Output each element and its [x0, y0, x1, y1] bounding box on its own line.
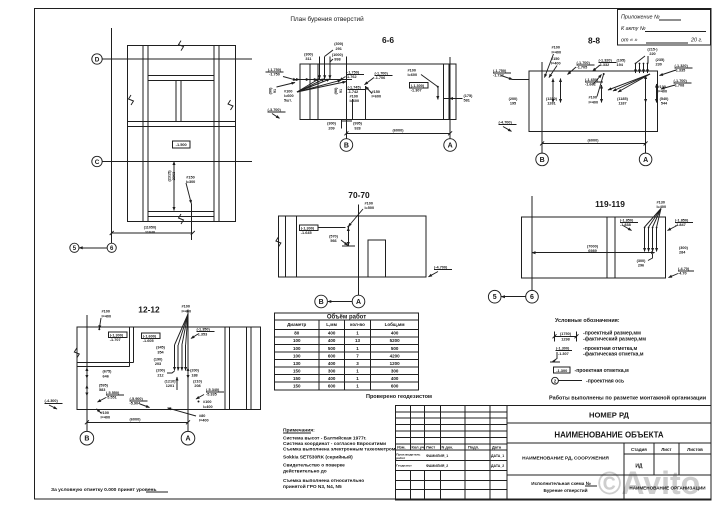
svg-text:#100: #100 [182, 305, 190, 309]
svg-text:Lобщ,мм: Lобщ,мм [385, 321, 406, 327]
8-8 left arrow [501, 76, 513, 80]
8-8 label (-1.700)/-1.708 right [674, 79, 692, 88]
svg-text:#100: #100 [552, 46, 560, 50]
svg-text:-проектная ось: -проектная ось [586, 378, 624, 384]
svg-text:(675): (675) [103, 370, 113, 374]
legend title [555, 317, 620, 324]
8-8 -4700 arrow [503, 127, 512, 132]
119-119 arrow -1847 [668, 226, 678, 231]
grid line 6 vertical [111, 28, 113, 243]
svg-text:(-1.600): (-1.600) [143, 334, 157, 338]
svg-text:#150: #150 [186, 176, 194, 180]
8-8 arrow right -1335 [660, 70, 677, 76]
6-6 left leader arrow [283, 77, 297, 81]
svg-text:400: 400 [328, 361, 336, 366]
svg-text:Проверено геодезистом: Проверено геодезистом [366, 394, 432, 400]
6-6 label #100 l=600 mid [350, 94, 360, 103]
70-70 inner vline a [284, 216, 286, 277]
svg-text:#130: #130 [657, 200, 665, 204]
svg-text:(7000): (7000) [587, 244, 599, 248]
12-12 label (345)/354 [156, 346, 166, 355]
revision header texts [397, 445, 502, 450]
svg-text:2363: 2363 [172, 172, 176, 180]
svg-text:(300): (300) [327, 122, 337, 126]
svg-text:-1.335: -1.335 [675, 69, 686, 73]
svg-text:(-1.350): (-1.350) [197, 328, 211, 332]
svg-text:(-1.700): (-1.700) [674, 79, 688, 83]
6-6 leader vline arrow 2 [324, 72, 326, 79]
section 119-119 body rect [522, 217, 666, 278]
cell NAIMENOVANIE OBJEKTA [507, 430, 711, 443]
70-70 -4700 arrow [429, 272, 439, 277]
8-8 leader2 [549, 66, 557, 78]
119-119 label (-4.70) right [678, 267, 694, 276]
svg-text:A: A [643, 157, 648, 164]
8-8 circle A [639, 153, 652, 166]
svg-text:(11050): (11050) [144, 226, 157, 230]
12-12 up arrow 1201 [176, 377, 178, 390]
6-6 inner vline right a [442, 64, 444, 120]
12-12 arrow -5551 [98, 398, 107, 403]
svg-text:Подп.: Подп. [468, 445, 479, 450]
svg-text:-1.645: -1.645 [301, 231, 312, 235]
8-8 arrow -1662 [593, 75, 602, 85]
12-12 box -1.300 [109, 332, 127, 337]
6-6 label #100 l=600 right [408, 69, 418, 78]
section 12-12 title [138, 305, 160, 315]
svg-text:291: 291 [336, 47, 342, 51]
svg-text:(-1.850): (-1.850) [620, 219, 634, 223]
svg-text:(1750): (1750) [560, 332, 572, 336]
svg-text:11040: 11040 [145, 230, 155, 234]
svg-text:НАИМЕНОВАНИЕ РД, СООРУЖЕНИЯ: НАИМЕНОВАНИЕ РД, СООРУЖЕНИЯ [522, 456, 609, 462]
6-6 inner vline a [309, 64, 311, 120]
section 119-119 title [595, 199, 625, 209]
plan wall mid band b [128, 126, 236, 128]
119-119 arrow -1838 [623, 226, 632, 231]
12-12 -4300 arrow [49, 405, 57, 409]
12-12 dim text (6000) [130, 417, 142, 421]
svg-text:(540): (540) [660, 97, 670, 101]
svg-text:-5.335: -5.335 [206, 393, 217, 397]
8-8 vdim 645 [645, 76, 647, 103]
svg-text:566: 566 [330, 239, 336, 243]
119-119 fan to label [645, 209, 661, 228]
svg-text:1187: 1187 [618, 102, 626, 106]
section 8-8 body rect [529, 71, 658, 132]
svg-text:Дата: Дата [492, 445, 502, 450]
8-8 label (1250)/1261 [546, 97, 558, 106]
svg-text:(-4.70): (-4.70) [678, 267, 690, 271]
6-6 label998 leader [330, 59, 333, 62]
svg-text:#150: #150 [372, 90, 380, 94]
svg-text:A: A [356, 299, 361, 306]
svg-text:230: 230 [656, 63, 662, 67]
8-8 label #150 l=400 [551, 57, 561, 66]
svg-text:646: 646 [103, 374, 109, 378]
svg-text:(200): (200) [509, 97, 519, 101]
svg-text:6: 6 [530, 294, 534, 301]
svg-text:300: 300 [391, 369, 399, 374]
svg-text:Лист: Лист [426, 445, 435, 450]
6-6 leader vline arrow 1 [319, 72, 321, 79]
svg-text:-1.750: -1.750 [269, 73, 280, 77]
svg-text:#100: #100 [408, 69, 416, 73]
section 70-70 title [348, 190, 370, 200]
plan bottom dim (11050)/11040 [144, 226, 157, 235]
svg-text:Работы выполнены по разметке м: Работы выполнены по разметке монтажной о… [549, 395, 706, 402]
svg-text:Диаметр: Диаметр [287, 322, 306, 327]
note about datum [51, 487, 168, 493]
plan wall bottom band b [148, 216, 214, 218]
svg-text:400: 400 [328, 376, 336, 381]
12-12 label (-1.350)/-1.353 [197, 328, 215, 337]
119-119 circle 5 [488, 290, 501, 303]
12-12 wall varrows 2 [86, 385, 88, 396]
svg-text:119-119: 119-119 [595, 199, 625, 209]
svg-text:B: B [540, 157, 545, 164]
12-12 label #100 l=400 bottom [101, 411, 111, 420]
8-8 arrow -1705 [568, 67, 577, 75]
8-8 label (-1.700)/-1.705 [577, 61, 595, 70]
stamp text K aktu [621, 26, 706, 32]
svg-text:212: 212 [157, 373, 163, 377]
6-6 inner vline b [317, 64, 319, 120]
svg-text:150: 150 [293, 384, 301, 389]
plan wall mid stub b [180, 80, 182, 121]
6-6 right leader slant [421, 75, 438, 87]
svg-text:(1000): (1000) [332, 53, 344, 57]
6-6 below line x341 [340, 120, 342, 129]
plan break top [179, 41, 184, 51]
svg-text:5шт.: 5шт. [284, 99, 292, 103]
6-6 label #150 l=600 [372, 90, 382, 99]
svg-text:ДАТА_2: ДАТА_2 [491, 464, 504, 468]
12-12 label #100 l=400 top A [182, 305, 192, 314]
70-70 label (-1.300)/-1.645 [301, 226, 315, 235]
70-70 label (-4.700) right [434, 265, 452, 269]
svg-text:l=400: l=400 [199, 419, 209, 423]
8-8 label (-1.650)/-1.662 [585, 78, 603, 87]
svg-text:-фактический размер,мм: -фактический размер,мм [583, 335, 646, 342]
svg-text:(-4.700): (-4.700) [434, 265, 448, 269]
svg-text:(300): (300) [334, 42, 344, 46]
plan dim tick R [191, 231, 195, 235]
plan wall right pair a [213, 46, 215, 222]
70-70 vdim tick [342, 245, 355, 247]
section 12-12 body rect [77, 327, 260, 410]
6-6 leader 150 600 [366, 87, 373, 94]
12-12 label (210)/208 [193, 379, 203, 388]
plan wall top crossbar a [148, 74, 214, 76]
8-8 label (-4.700) [499, 121, 517, 125]
8-8 dim tick B [540, 141, 544, 145]
12-12 corner wall h a [77, 362, 134, 364]
svg-text:80: 80 [294, 331, 300, 336]
svg-text:(1250): (1250) [546, 97, 558, 101]
svg-text:l=600: l=600 [372, 95, 382, 99]
svg-text:l=400: l=400 [552, 50, 562, 54]
6-6 label #100 l=600 5sht [284, 89, 294, 102]
12-12 wall varrows 1 [86, 368, 88, 379]
svg-text:500: 500 [391, 346, 399, 351]
title block revision grid [396, 405, 508, 500]
cell naimenovanie organizacii [629, 486, 705, 491]
plan wall mid band a [128, 120, 236, 122]
svg-text:6989: 6989 [588, 249, 596, 253]
6-6 label (-3.700) [268, 108, 286, 112]
8-8 grid A vertical [645, 96, 647, 153]
legend item boxed elevation [554, 367, 629, 374]
works table columns [319, 320, 371, 390]
plan leader #150 [186, 183, 191, 204]
119-119 label (-1.850)/-1.838 [620, 219, 638, 228]
8-8 label #100 l=400 right [658, 85, 668, 94]
svg-text:кол-во: кол-во [350, 322, 365, 327]
8-8 dim line 6000 [542, 142, 646, 144]
12-12 arrow -5335 [196, 395, 204, 400]
8-8 mid leader dot [603, 73, 605, 75]
svg-text:(90): (90) [334, 87, 338, 94]
svg-text:#100: #100 [203, 400, 211, 404]
12-12 right vpair2 b [250, 327, 252, 410]
svg-text:#100: #100 [365, 201, 373, 205]
svg-text:(-1.700): (-1.700) [577, 61, 591, 65]
svg-text:-1.762: -1.762 [346, 75, 357, 79]
svg-text:l=400: l=400 [203, 405, 213, 409]
svg-text:(-1.750): (-1.750) [268, 68, 282, 72]
svg-text:(-1.750): (-1.750) [493, 69, 507, 73]
6-6 mid vleader [352, 99, 354, 120]
12-12 arrow -5904 [140, 404, 150, 408]
svg-text:(1185): (1185) [617, 97, 629, 101]
70-70 grid A vertical [358, 205, 360, 296]
svg-text:Условные обозначения:: Условные обозначения: [555, 317, 620, 324]
svg-text:Исполнительная схема №: Исполнительная схема № [531, 481, 590, 486]
svg-text:Кол.уч: Кол.уч [412, 445, 425, 450]
svg-text:-4.70: -4.70 [678, 272, 687, 276]
svg-text:-5.904: -5.904 [130, 402, 142, 406]
svg-text:400: 400 [391, 376, 399, 381]
svg-text:(-1.850): (-1.850) [675, 219, 689, 223]
svg-text:l=600: l=600 [408, 73, 418, 77]
12-12 label (200)/188 [190, 369, 200, 378]
70-70 label hline [318, 227, 346, 229]
12-12 dim line 6000 [87, 421, 188, 423]
6-6 leader vline 1 [319, 56, 321, 78]
6-6 grid B vertical [345, 57, 347, 139]
6-6 leader vline 3 [329, 56, 331, 78]
12-12 circle A [181, 431, 195, 445]
svg-text:К акту №: К акту № [621, 26, 646, 32]
plan dim tick L [110, 231, 114, 235]
svg-text:A: A [185, 436, 190, 443]
12-12 corner wall v b [133, 327, 135, 363]
8-8 label (1185)/1187 [617, 97, 629, 106]
plan wall right pair b [218, 46, 220, 222]
svg-text:принятой ГРО N3, N4, N5: принятой ГРО N3, N4, N5 [283, 483, 342, 490]
svg-text:-проектная отметка,м: -проектная отметка,м [575, 368, 629, 374]
svg-text:l=400: l=400 [182, 309, 192, 313]
119-119 grid 6 vertical [531, 196, 533, 291]
70-70 circle A [352, 295, 365, 308]
svg-text:-1.300: -1.300 [556, 368, 567, 373]
6-6 chain arrow at 317.8 [312, 79, 318, 81]
12-12 label (-1.600)/-1.605 [143, 334, 157, 343]
8-8 inner vdim2 [560, 79, 562, 103]
12-12 label (190)/203 [154, 357, 164, 366]
stamp text Prilozhenie [621, 15, 681, 21]
svg-text:A: A [448, 143, 453, 150]
119-119 dim 7000 [532, 252, 655, 254]
svg-text:#100: #100 [284, 89, 292, 93]
119-119 label (300)/296 [637, 259, 647, 268]
svg-text:-1.706: -1.706 [375, 76, 386, 80]
12-12 212 leader [167, 371, 175, 373]
svg-text:2: 2 [554, 378, 557, 383]
svg-text:(-1.300): (-1.300) [411, 84, 425, 88]
6-6 label (-1.745)/-1.742 [348, 85, 366, 94]
6-6 label (300)/311 [304, 53, 314, 62]
svg-text:296: 296 [638, 264, 644, 268]
svg-text:Листов: Листов [687, 447, 703, 452]
70-70 break left [276, 237, 281, 247]
70-70 vdim [347, 228, 349, 246]
svg-text:208: 208 [194, 384, 200, 388]
svg-text:195: 195 [510, 102, 516, 106]
svg-text:работ: работ [396, 456, 405, 460]
svg-text:(-4.300): (-4.300) [45, 399, 59, 403]
8-8 leader1 [545, 54, 554, 78]
6-6 chain hline [294, 79, 353, 81]
cell naimenovanie rd sooruzheniya [522, 443, 624, 500]
12-12 label (1210)/1201 [165, 379, 177, 388]
svg-text:203: 203 [155, 362, 161, 366]
plan break left [129, 95, 134, 105]
8-8 left hline [513, 79, 530, 81]
119-119 label #130 l=400 [657, 200, 667, 209]
svg-text:(300): (300) [637, 259, 647, 263]
svg-text:-1.307: -1.307 [411, 89, 422, 93]
svg-text:(200): (200) [190, 369, 200, 373]
12-12 topleft dot [98, 328, 100, 330]
svg-text:(195): (195) [617, 59, 627, 63]
svg-text:600: 600 [328, 353, 336, 358]
70-70 axis arrow A to B [328, 301, 352, 303]
svg-text:544: 544 [661, 102, 668, 106]
svg-text:(-1.320): (-1.320) [599, 59, 613, 63]
svg-text:5: 5 [493, 294, 497, 301]
svg-text:B: B [344, 143, 349, 150]
axis arrow 6 to 5 [79, 247, 107, 249]
svg-text:12-12: 12-12 [138, 305, 160, 315]
6-6 right vleader [437, 87, 439, 100]
plan wall mid stub a [175, 80, 177, 121]
svg-text:-1.707: -1.707 [110, 338, 121, 342]
12-12 box -1.600 [142, 333, 160, 338]
119-119 label (-1.850)/-1.847 right [675, 219, 693, 228]
stamp text ot date [621, 38, 703, 44]
8-8 label #100 l=400 [552, 46, 562, 55]
12-12 label #100 l=400 right [203, 400, 213, 409]
12-12 circle B [80, 431, 94, 445]
svg-text:400: 400 [391, 331, 399, 336]
12-12 label (200)/212 [156, 369, 166, 378]
svg-text:150: 150 [293, 369, 301, 374]
svg-text:583: 583 [99, 388, 105, 392]
svg-text:План бурения отверстий: План бурения отверстий [290, 15, 364, 23]
70-70 leader dot [347, 226, 349, 228]
svg-text:(-1.300): (-1.300) [110, 333, 124, 337]
6-6 box around -1.300 [410, 83, 428, 88]
svg-text:Геодезист: Геодезист [396, 464, 412, 468]
12-12 break left [74, 348, 79, 358]
6-6 grid A vertical [449, 57, 451, 139]
svg-text:209: 209 [328, 126, 334, 130]
svg-text:D: D [95, 56, 100, 63]
6-6 right outside arrow [450, 98, 463, 100]
svg-text:Бурение отверстий: Бурение отверстий [543, 487, 587, 493]
grid circle 6 [107, 243, 116, 252]
svg-text:4200: 4200 [390, 353, 401, 358]
plan vdim label (2315)/2363 [168, 170, 177, 182]
works table rows [274, 331, 418, 390]
8-8 label (-1.750)/-1.722 left [493, 69, 511, 78]
119-119 label (300)/284 right [679, 246, 689, 255]
legend item projected size [553, 330, 647, 343]
svg-text:1200: 1200 [390, 361, 401, 366]
12-12 dot right [198, 401, 200, 403]
svg-text:100: 100 [293, 346, 301, 351]
8-8 label (200)/195 [509, 97, 519, 106]
svg-text:(215-): (215-) [647, 48, 658, 52]
svg-text:Объём работ: Объём работ [327, 313, 366, 320]
12-12 label #80 l=400 [199, 414, 209, 423]
works table frame [274, 313, 418, 390]
svg-text:действительно до: действительно до [283, 468, 327, 475]
cell ispolnitelnaya skhema [531, 481, 597, 493]
12-12 label (595)/583 [99, 383, 109, 392]
12-12 right vpair1 a [224, 327, 226, 410]
svg-text:311: 311 [305, 57, 311, 61]
6-6 circle A [444, 139, 457, 152]
svg-text:(-3.700): (-3.700) [268, 108, 282, 112]
svg-text:(2315): (2315) [168, 170, 172, 182]
svg-text:(-1.745): (-1.745) [348, 85, 362, 89]
6-6 dim tick B [344, 131, 348, 135]
6-6 label (300)/209 below [327, 122, 337, 131]
svg-text:l=400: l=400 [102, 314, 112, 318]
svg-text:l=600: l=600 [284, 94, 294, 98]
section 70-70 body rect [278, 216, 426, 277]
svg-text:#80: #80 [199, 414, 205, 418]
plan level box -1.500 [173, 141, 191, 148]
svg-text:(-5.340): (-5.340) [206, 388, 220, 392]
8-8 dim text (6000) [588, 138, 600, 142]
119-119 inner vline b [614, 217, 616, 278]
svg-text:-1.307: -1.307 [558, 352, 569, 356]
6-6 below-rect arrows [341, 120, 352, 122]
119-119 -470 arrow [669, 274, 679, 278]
svg-text:70-70: 70-70 [348, 190, 370, 200]
6-6 label291 leader [325, 50, 333, 56]
6-6 label (300)/291 [334, 42, 344, 51]
legend item projected elevation [550, 346, 644, 363]
12-12 bottom leader [97, 409, 102, 413]
8-8 label (540)/544 [660, 97, 670, 106]
svg-text:8-8: 8-8 [588, 36, 600, 46]
svg-text:Система координат - согласно Е: Система координат - согласно Евроситими [283, 441, 386, 447]
